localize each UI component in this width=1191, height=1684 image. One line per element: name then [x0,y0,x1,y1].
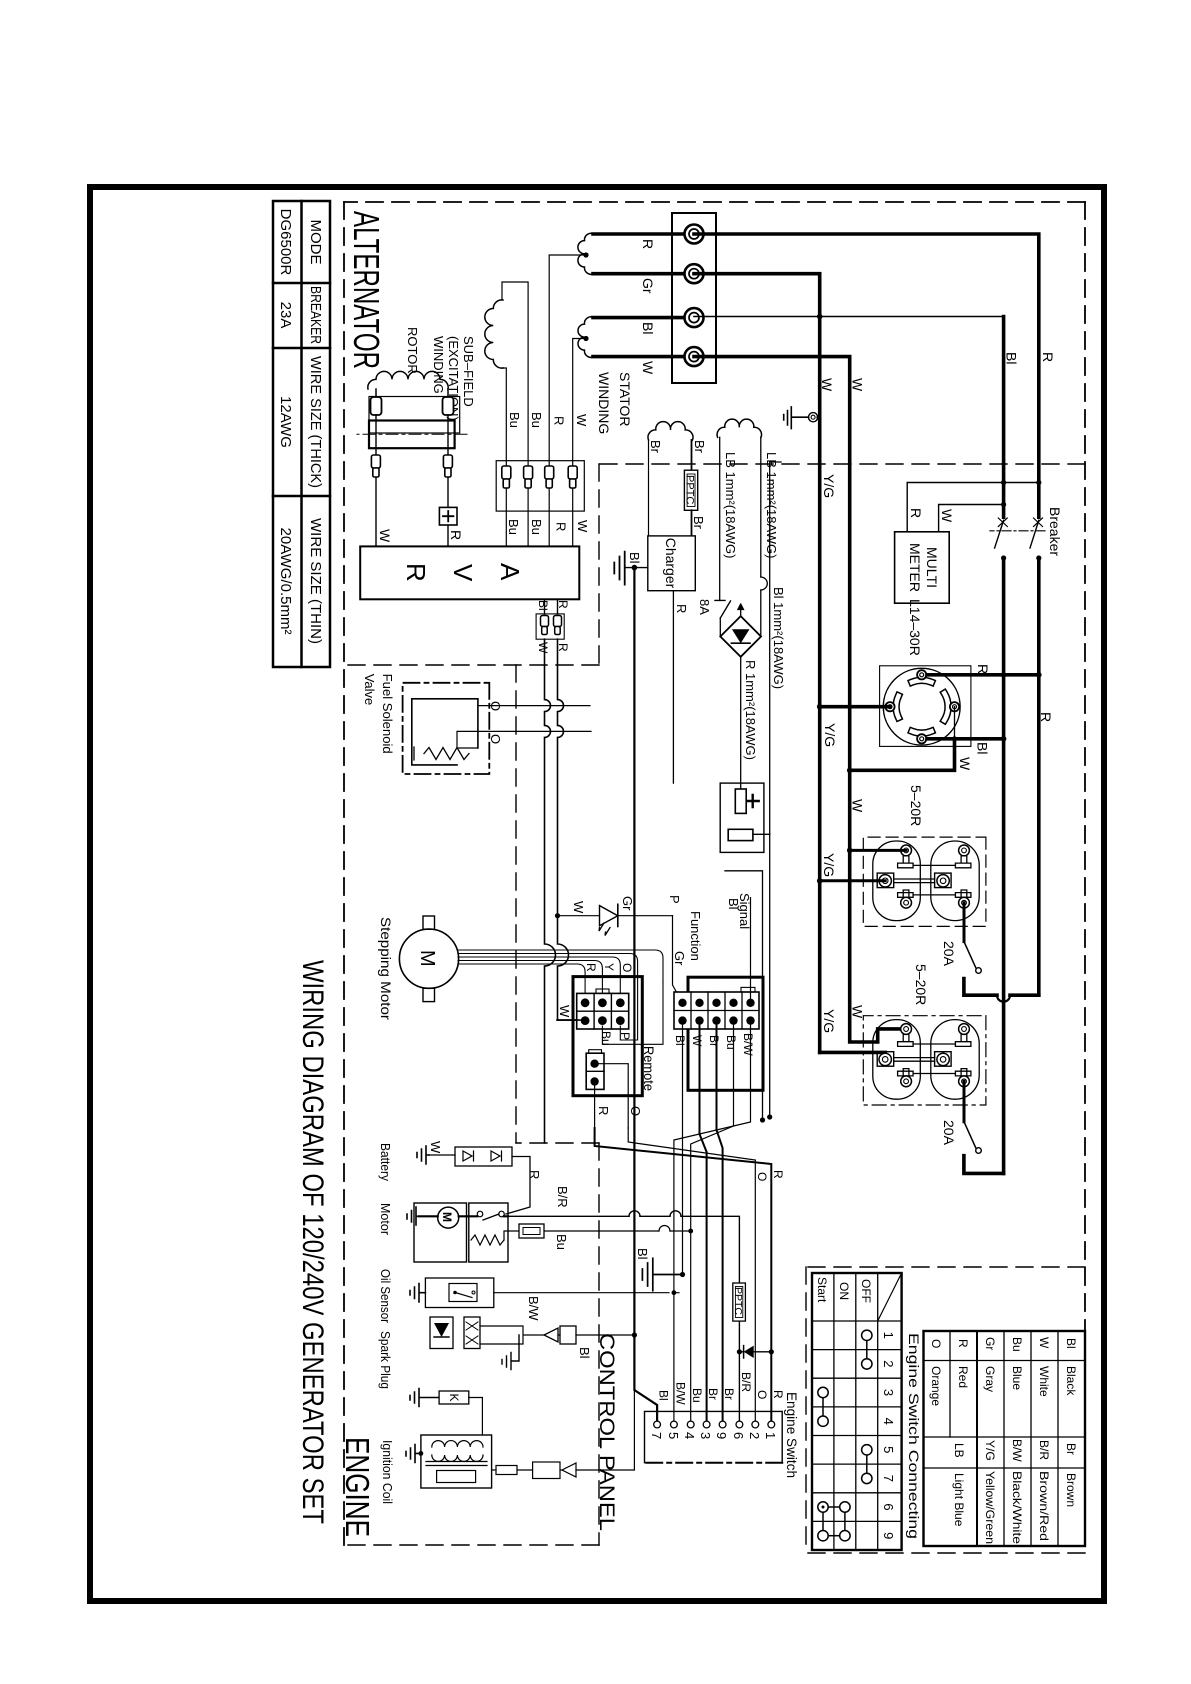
rotor coil [368,371,448,389]
svg-text:W: W [377,529,393,543]
bullet Bu wire 2 [502,466,511,488]
motor wire bundle [458,950,663,998]
ignition chain to Bl wire [576,1380,634,1470]
motor circle [438,1207,459,1228]
svg-text:W: W [640,361,656,375]
relay coil [471,1235,504,1245]
svg-text:Charger: Charger [663,538,679,589]
PPTC box [684,470,697,510]
svg-text:Black/White: Black/White [1010,1471,1024,1544]
svg-text:PPTC: PPTC [732,1287,744,1315]
wire stator R to terminal 1 [593,232,694,236]
svg-text:B/W: B/W [1010,1439,1024,1462]
svg-text:M: M [440,1212,454,1222]
svg-text:W: W [575,520,590,533]
svg-text:O: O [755,1172,769,1181]
svg-text:ROTOR: ROTOR [405,327,420,374]
svg-text:V: V [448,564,478,582]
bullet W wire [568,466,577,488]
svg-text:O: O [755,1390,769,1399]
multimeter wire R [907,483,1039,532]
receptacle 5-20R #1 [863,837,986,926]
svg-text:WINDING: WINDING [431,336,446,394]
stepping motor tabs [423,916,435,929]
receptacle 1 wire YG [820,879,886,882]
svg-text:6: 6 [731,1432,746,1439]
charge coil Br [648,422,693,440]
svg-text:White: White [1037,1366,1051,1397]
svg-text:R 1mm²(18AWG): R 1mm²(18AWG) [743,660,758,760]
breaker gap R bus [1033,519,1044,559]
svg-text:Bl: Bl [577,1347,592,1359]
spark plug ground [410,1389,439,1407]
Y/G staircase to receptacle 2 [820,1052,886,1059]
wire brush R [447,415,449,546]
dashed engine box right [344,1544,599,1546]
svg-text:9: 9 [881,1532,896,1539]
W bus [694,357,903,1042]
diode bridge diamond [720,616,761,657]
svg-text:Function: Function [688,911,703,961]
svg-text:Bu: Bu [724,1035,738,1050]
svg-text:Breaker: Breaker [1047,507,1063,556]
chain box [560,1326,576,1344]
svg-text:8A: 8A [697,599,712,615]
svg-text:Bu: Bu [507,412,522,428]
engine switch box [645,1411,783,1462]
stepping motor circle [399,929,458,988]
spark ground [502,1335,519,1370]
ignition coil windings [432,1441,483,1447]
svg-text:BREAKER: BREAKER [307,286,324,344]
svg-text:Bl: Bl [673,1035,687,1046]
LB lead 1 to bridge top [760,437,762,636]
battery wire to diode pack [429,1154,455,1156]
svg-text:Bl: Bl [975,742,991,754]
terminal 2 [685,264,704,283]
wire fuse to bridge bottom corner [719,618,721,636]
solenoid wire O 1 [478,705,590,707]
wire stator W to terminal 4 [593,355,694,359]
breaker dash-dot link [990,530,1045,532]
ignition chain triangle [562,1463,576,1477]
6-pin connector outer thick box [573,977,642,1096]
battery ground [417,1146,429,1164]
terminal 3 [685,308,704,327]
fuse on Bu wire [519,1224,544,1238]
svg-text:Valve: Valve [362,674,377,706]
ground at charger [614,552,624,585]
svg-text:M: M [416,950,438,967]
fuel solenoid inner box [412,699,478,765]
svg-text:R: R [527,1170,542,1179]
spark plug K box [439,1391,469,1404]
svg-text:B/W: B/W [526,1296,541,1321]
svg-text:ON: ON [837,1282,851,1300]
svg-text:W: W [957,757,973,771]
title block table [273,201,330,667]
charger R output [672,591,674,783]
rotor core box [369,421,455,449]
chain wires [480,1326,560,1344]
PPTC engine switch [733,1283,746,1321]
LED symbol [600,906,618,926]
bullet R wire [545,466,554,488]
wire O remote to pin2 [628,1128,755,1421]
engine switch pin numbers [649,1432,778,1439]
ignition chain plug [496,1466,517,1475]
spark chain riser [576,1334,634,1336]
svg-text:1: 1 [763,1432,778,1439]
connector 5x2 box [674,992,759,1029]
svg-text:K: K [447,1394,461,1402]
switch table circles [818,1330,872,1541]
svg-text:5: 5 [881,1446,896,1453]
svg-text:Y/G: Y/G [822,723,838,747]
dashed tables box left [806,1266,1085,1268]
svg-text:Y/G: Y/G [821,1009,837,1033]
sub-field lead B [502,368,506,546]
svg-text:R: R [771,1170,785,1179]
Bl wire from charger to control panel [634,568,657,1421]
L14-30R pins [885,670,959,743]
svg-text:20A: 20A [941,941,957,967]
L14-30R slots [896,680,948,733]
svg-text:Remote: Remote [641,1046,657,1091]
motor box [414,1203,467,1262]
svg-text:B/W: B/W [741,1033,755,1056]
hop on LB lead1 [761,577,768,590]
LB winding [717,419,761,437]
svg-text:20A: 20A [941,1120,957,1146]
dot ground on Bl wire [680,1272,685,1277]
dashed partition alternator step [598,464,600,665]
P wire hook [620,978,637,1040]
R bus from terminal 1 [694,234,1039,995]
AVR box [360,546,579,599]
svg-text:SUB–FIELD: SUB–FIELD [461,336,476,407]
terminal 1 [685,225,704,244]
Bl bus drop to 20A switch 2 [964,1156,1004,1174]
svg-text:O: O [488,701,503,711]
bullet connector rotor W [371,455,380,477]
svg-text:9: 9 [714,1432,729,1439]
svg-text:5–20R: 5–20R [913,964,929,1005]
svg-text:W: W [571,901,586,914]
svg-text:R: R [1040,352,1056,362]
svg-text:R: R [401,563,431,582]
wire Bl grounded [682,1025,684,1275]
svg-text:Black: Black [1064,1366,1078,1396]
ground control panel [642,1258,682,1290]
svg-text:W: W [557,1005,572,1018]
svg-text:R: R [640,239,656,249]
bridge output wire R to battery [740,657,742,789]
svg-text:3: 3 [881,1389,896,1396]
dashed engine box top-right [598,1143,600,1545]
svg-text:MULTI: MULTI [924,547,940,588]
svg-text:O: O [628,1106,643,1116]
LB lead 2 to fuse 8A [719,437,721,600]
svg-text:Bl: Bl [536,600,550,611]
stator coil 1 (R/Gr) [578,233,594,274]
L14 wire YG pin [820,705,890,709]
svg-text:Y/G: Y/G [983,1440,997,1461]
bridge diode symbol [732,629,750,643]
6-pin connector grid [577,993,629,1029]
battery plus cell [735,789,746,813]
svg-text:Br: Br [692,440,707,454]
rotor brush bottom [375,389,377,397]
dashed border: bottom edge [343,202,345,1545]
svg-text:WIRE SIZE (THIN): WIRE SIZE (THIN) [307,518,324,644]
svg-text:Y/G: Y/G [821,474,837,498]
Bl bus [1002,317,1006,1174]
motor ground [407,1207,419,1225]
charger ground wire [625,567,648,569]
L14-30R circle [883,668,960,745]
terminal block [672,213,716,383]
svg-text:R: R [771,1390,785,1399]
svg-text:Bu: Bu [506,519,521,535]
svg-text:MODE: MODE [307,220,324,265]
svg-text:Fuel Solenoid: Fuel Solenoid [380,674,395,754]
svg-text:R: R [674,604,689,613]
wire to control panel [725,871,763,1120]
dashed engine box left [344,664,599,666]
svg-text:Br: Br [706,1388,720,1400]
connector 5x2 thick box [688,977,763,1090]
title block texts [277,209,324,644]
B/W wire from oil sensor [494,1292,679,1294]
svg-text:Bl: Bl [635,1248,650,1260]
rotor slip ring outer box [369,397,460,434]
multimeter wire W [939,505,1004,532]
svg-text:LB 1mm²(18AWG): LB 1mm²(18AWG) [764,452,779,558]
svg-text:Bu: Bu [599,1031,613,1046]
svg-text:Ignition Coil: Ignition Coil [380,1440,395,1504]
stator coil 2 tap dot [583,336,588,341]
svg-text:R: R [556,600,570,609]
svg-text:Bl: Bl [726,898,741,910]
svg-text:Br: Br [722,1388,736,1400]
receptacle 1 wire W [850,849,906,852]
dashed engine box jog [516,1142,599,1144]
svg-text:B/R: B/R [1037,1440,1051,1460]
dashed tables box right [806,1552,1085,1554]
svg-text:2: 2 [747,1432,762,1439]
wire Br to PPTC [691,440,693,470]
multimeter box [895,532,950,603]
diode pack [455,1147,512,1166]
fuel solenoid dash-dot box [403,683,490,774]
stator coil 2 tap wire W [573,339,586,547]
W wire label and LED tap dot [555,913,560,918]
svg-text:Bl 1mm²(18AWG): Bl 1mm²(18AWG) [771,587,786,689]
svg-text:Bu: Bu [529,412,544,428]
battery box [720,783,764,852]
svg-text:Spark Plug: Spark Plug [378,1331,393,1389]
breaker blade Bl [995,520,1004,548]
hop of R drop over Bl bus [997,995,1010,1002]
svg-text:O: O [488,734,503,744]
svg-text:Bu: Bu [1010,1337,1024,1352]
svg-text:Yellow/Green: Yellow/Green [983,1471,997,1544]
svg-text:Engine Switch Connecting: Engine Switch Connecting [906,1333,922,1539]
fuel solenoid coil zigzag [414,747,469,760]
svg-text:LB: LB [952,1443,966,1458]
dashed partition alternator right [599,463,1085,465]
svg-text:R: R [596,1106,611,1115]
svg-text:ENGINE: ENGINE [339,1437,376,1537]
svg-text:Bl: Bl [640,322,656,334]
wire R remote to pin1 [595,1128,772,1421]
svg-text:DG6500R: DG6500R [277,209,294,276]
svg-text:Engine Switch: Engine Switch [784,1392,800,1478]
AVR connector bullet R [554,616,562,635]
svg-text:B/R: B/R [555,1186,570,1208]
chain amp triangle [544,1328,558,1342]
svg-text:L14–30R: L14–30R [907,599,923,656]
svg-text:W: W [850,378,866,392]
stator coil 1 tap dot [583,252,588,257]
LED wire [558,915,673,917]
svg-text:3: 3 [698,1432,713,1439]
svg-text:4: 4 [682,1432,697,1439]
svg-text:O: O [620,963,634,972]
svg-text:W: W [1037,1337,1051,1349]
svg-text:Gray: Gray [983,1366,997,1392]
svg-text:7: 7 [649,1432,664,1439]
svg-text:Bl: Bl [1004,352,1020,364]
svg-text:Red: Red [956,1366,970,1388]
solenoid wire O 2 [457,731,591,748]
svg-text:Br: Br [691,516,706,530]
remote connector [586,1053,604,1089]
svg-text:5: 5 [666,1432,681,1439]
svg-text:B/W: B/W [674,1382,688,1405]
20A switch 2 [964,1122,976,1148]
R bus drop to 20A switch 1 [964,979,1039,996]
svg-text:W: W [428,1141,443,1154]
AVR connector bullet W [541,616,549,635]
Gr wire to Y/G bus [694,274,820,1053]
svg-text:WIRING DIAGRAM OF 120/240V: WIRING DIAGRAM OF 120/240V GENERATOR SET [296,960,329,1524]
rotor axis dash-dot [357,433,467,435]
wire Br coil bottom to charger [648,440,650,536]
svg-text:Br: Br [707,1035,721,1047]
relay contacts [499,1211,505,1217]
svg-text:LB 1mm²(18AWG): LB 1mm²(18AWG) [723,452,738,558]
B/R wire vertical [508,1216,739,1421]
plus box on R wire [439,507,457,525]
svg-text:23A: 23A [277,302,294,329]
svg-text:Bl: Bl [657,1390,671,1401]
svg-text:CONTROL PANEL: CONTROL PANEL [595,1333,618,1531]
B/R from relay [419,1215,508,1217]
svg-text:1: 1 [881,1332,896,1339]
wire B/W to pin5 [674,1025,751,1421]
dashed tables box bottom [805,1267,807,1553]
Bu wire vertical from fuse [544,1230,691,1232]
relay box [469,1203,508,1262]
battery neg wire Bl [753,462,781,834]
svg-text:Orange: Orange [929,1366,943,1406]
svg-text:Gr: Gr [640,278,656,294]
fuse 8A [715,600,731,618]
signal wire Bl [750,898,752,1003]
svg-text:Br: Br [648,440,663,454]
20A switch 1 [964,942,976,968]
svg-text:7: 7 [881,1475,896,1482]
oil sensor ground [410,1284,425,1303]
spark gap component B [464,1317,480,1349]
ignition coil box [421,1435,492,1488]
diode jumper R to B/R [769,1349,774,1354]
sub-field lead A [502,282,528,546]
svg-text:R: R [448,530,464,540]
svg-text:P: P [667,895,682,904]
wire Bu to pin4 [691,1025,734,1421]
wire Br to pin9 [717,1025,723,1421]
svg-text:W: W [819,378,835,392]
svg-text:Stepping Motor: Stepping Motor [378,917,394,1020]
svg-text:OFF: OFF [859,1279,873,1303]
dashed border: top edge [1084,202,1086,1553]
svg-text:W: W [574,414,589,427]
remote wire O [599,1064,628,1128]
svg-text:Brown/Red: Brown/Red [1037,1471,1051,1541]
svg-text:STATOR: STATOR [617,372,633,426]
wire brush W [375,415,377,546]
svg-text:2: 2 [881,1360,896,1367]
terminal 4 [685,347,704,366]
sub-field winding coil [485,300,503,368]
wire pack to relay [506,1157,530,1215]
svg-text:W: W [690,1035,704,1047]
wire stator Bl to terminal 3 [593,316,694,320]
battery neg terminal [728,829,753,840]
stator coil 1 tap wire R [549,255,586,546]
engine switch pins [654,1421,775,1428]
svg-text:Battery: Battery [378,1143,393,1181]
L14 wire Bl pin [927,737,1004,741]
svg-text:Start: Start [815,1277,829,1303]
svg-text:R: R [956,1339,970,1348]
wire PPTC to charger [691,510,693,536]
svg-text:Gr: Gr [620,896,635,911]
bullet Bu wire 1 [524,466,533,488]
oil sensor box [425,1278,493,1308]
Bu wire hook [602,982,663,1044]
svg-text:Motor: Motor [378,1203,393,1236]
L14 wire R pin [927,673,1039,677]
AVR connector box [536,614,564,639]
rotor brush top [447,389,449,397]
svg-text:R: R [908,508,924,518]
dashed border: left edge (ALTERNATOR) [344,201,1085,203]
svg-text:R: R [552,416,567,425]
svg-text:6: 6 [881,1503,896,1510]
svg-text:Oil Sensor: Oil Sensor [378,1269,393,1324]
svg-text:Blue: Blue [1010,1366,1024,1390]
ground on Y/G bus [809,413,818,422]
oil sensor switch [449,1284,477,1302]
svg-text:20AWG/0.5mm²: 20AWG/0.5mm² [277,528,294,635]
W wire to 6pin [557,1019,580,1021]
spark gap component A [430,1317,453,1349]
svg-text:PPTC: PPTC [684,475,696,504]
